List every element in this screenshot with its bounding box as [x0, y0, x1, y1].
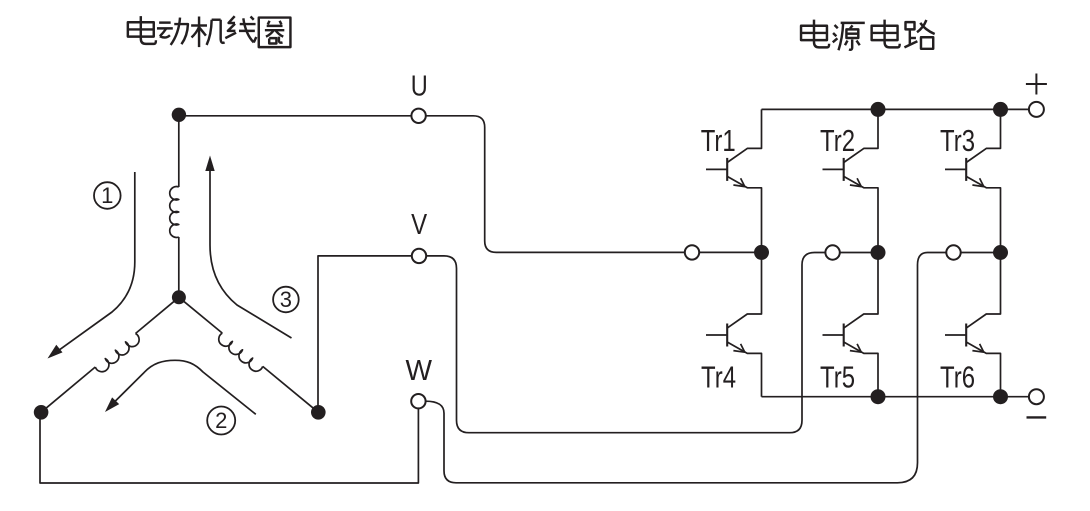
transistor base bar: [726, 158, 728, 181]
base lead: [706, 334, 727, 336]
collector lead: [727, 252, 761, 328]
svg-text:3: 3: [280, 287, 292, 312]
collector lead: [844, 109, 878, 162]
plus sign: [1026, 74, 1047, 95]
title: motor coil 电动机线圈: [128, 16, 156, 44]
winding 2 left arm with coil: [136, 297, 179, 333]
svg-text:Tr2: Tr2: [820, 124, 855, 158]
collector lead: [844, 253, 878, 329]
svg-text:Tr6: Tr6: [940, 361, 975, 395]
winding 1 vertical with coil: [178, 115, 180, 187]
emitter lead: [727, 176, 761, 252]
wire U circle to Tr1 column: [699, 251, 761, 253]
emitter lead: [844, 176, 878, 252]
title: power circuit 电源电路: [801, 20, 829, 48]
junction dot rail/Tr6: [993, 389, 1008, 404]
node dot right arm end: [311, 405, 326, 420]
node W phase terminal circle: [946, 245, 960, 259]
svg-text:Tr1: Tr1: [701, 124, 736, 158]
svg-text:V: V: [411, 209, 428, 241]
base lead: [706, 168, 727, 170]
node U phase terminal circle: [685, 245, 699, 259]
emitter arrow: [733, 178, 744, 186]
circled 2: [207, 407, 235, 435]
wire W below-terminal + bottom return to left arm: [40, 408, 418, 483]
wire U top horizontal: [179, 115, 411, 117]
wire W right long route to Tr3/Tr6 column: [426, 253, 947, 483]
emitter lead: [966, 176, 1000, 252]
wire V circle to Tr2 column: [840, 252, 878, 254]
arrow 3 curve: [210, 169, 292, 338]
svg-text:U: U: [411, 70, 428, 102]
node dot left arm end: [34, 405, 49, 420]
terminal W circle: [411, 394, 425, 408]
base lead: [945, 334, 966, 336]
winding 3 right arm with coil: [179, 297, 222, 333]
wire W circle to Tr3 column: [961, 252, 1001, 254]
emitter lead: [844, 342, 878, 397]
transistor base bar: [843, 324, 845, 347]
junction dot V/Tr2: [871, 245, 886, 260]
node dot star centre: [172, 290, 186, 304]
transistor base bar: [965, 158, 967, 181]
junction dot rail/Tr3: [993, 102, 1008, 117]
svg-text:1: 1: [101, 183, 113, 208]
svg-text:Tr4: Tr4: [701, 361, 736, 395]
wire V left + vertical to right arm: [318, 256, 412, 412]
svg-text:2: 2: [215, 408, 227, 433]
collector lead: [727, 109, 761, 162]
junction dot rail/Tr2: [871, 102, 886, 117]
collector lead: [966, 253, 1000, 329]
emitter arrow: [972, 178, 983, 186]
junction dot rail/Tr5: [871, 389, 886, 404]
node V phase terminal circle: [825, 245, 839, 259]
emitter arrow: [733, 344, 744, 352]
terminal U circle: [411, 109, 425, 123]
top supply rail: [762, 108, 1029, 110]
junction dot W/Tr3: [993, 245, 1008, 260]
circled 3: [273, 287, 299, 313]
base lead: [823, 168, 844, 170]
svg-text:Tr3: Tr3: [940, 124, 975, 158]
minus sign: [1027, 416, 1047, 418]
circled 1: [94, 182, 121, 209]
emitter lead: [966, 342, 1000, 397]
transistor base bar: [843, 158, 845, 181]
wire V right long route to Tr2/Tr5 column: [426, 253, 825, 433]
node dot top of winding 1: [172, 108, 186, 122]
base lead: [945, 168, 966, 170]
base lead: [823, 334, 844, 336]
arrow 2 arc: [112, 360, 256, 414]
emitter lead: [727, 342, 761, 397]
svg-text:W: W: [406, 355, 433, 387]
emitter arrow: [972, 344, 983, 352]
collector lead: [966, 109, 1000, 162]
emitter arrow: [850, 178, 861, 186]
arrow 1 curve: [59, 172, 135, 350]
transistor base bar: [965, 324, 967, 347]
terminal minus circle: [1029, 389, 1044, 404]
svg-text:Tr5: Tr5: [820, 361, 855, 395]
transistor base bar: [726, 324, 728, 347]
wire U right with corners down to phase row: [426, 116, 685, 253]
bottom supply rail: [762, 396, 1029, 398]
junction dot U/Tr1: [754, 245, 769, 260]
emitter arrow: [850, 344, 861, 352]
terminal plus circle: [1029, 102, 1044, 117]
terminal V circle: [412, 249, 426, 263]
